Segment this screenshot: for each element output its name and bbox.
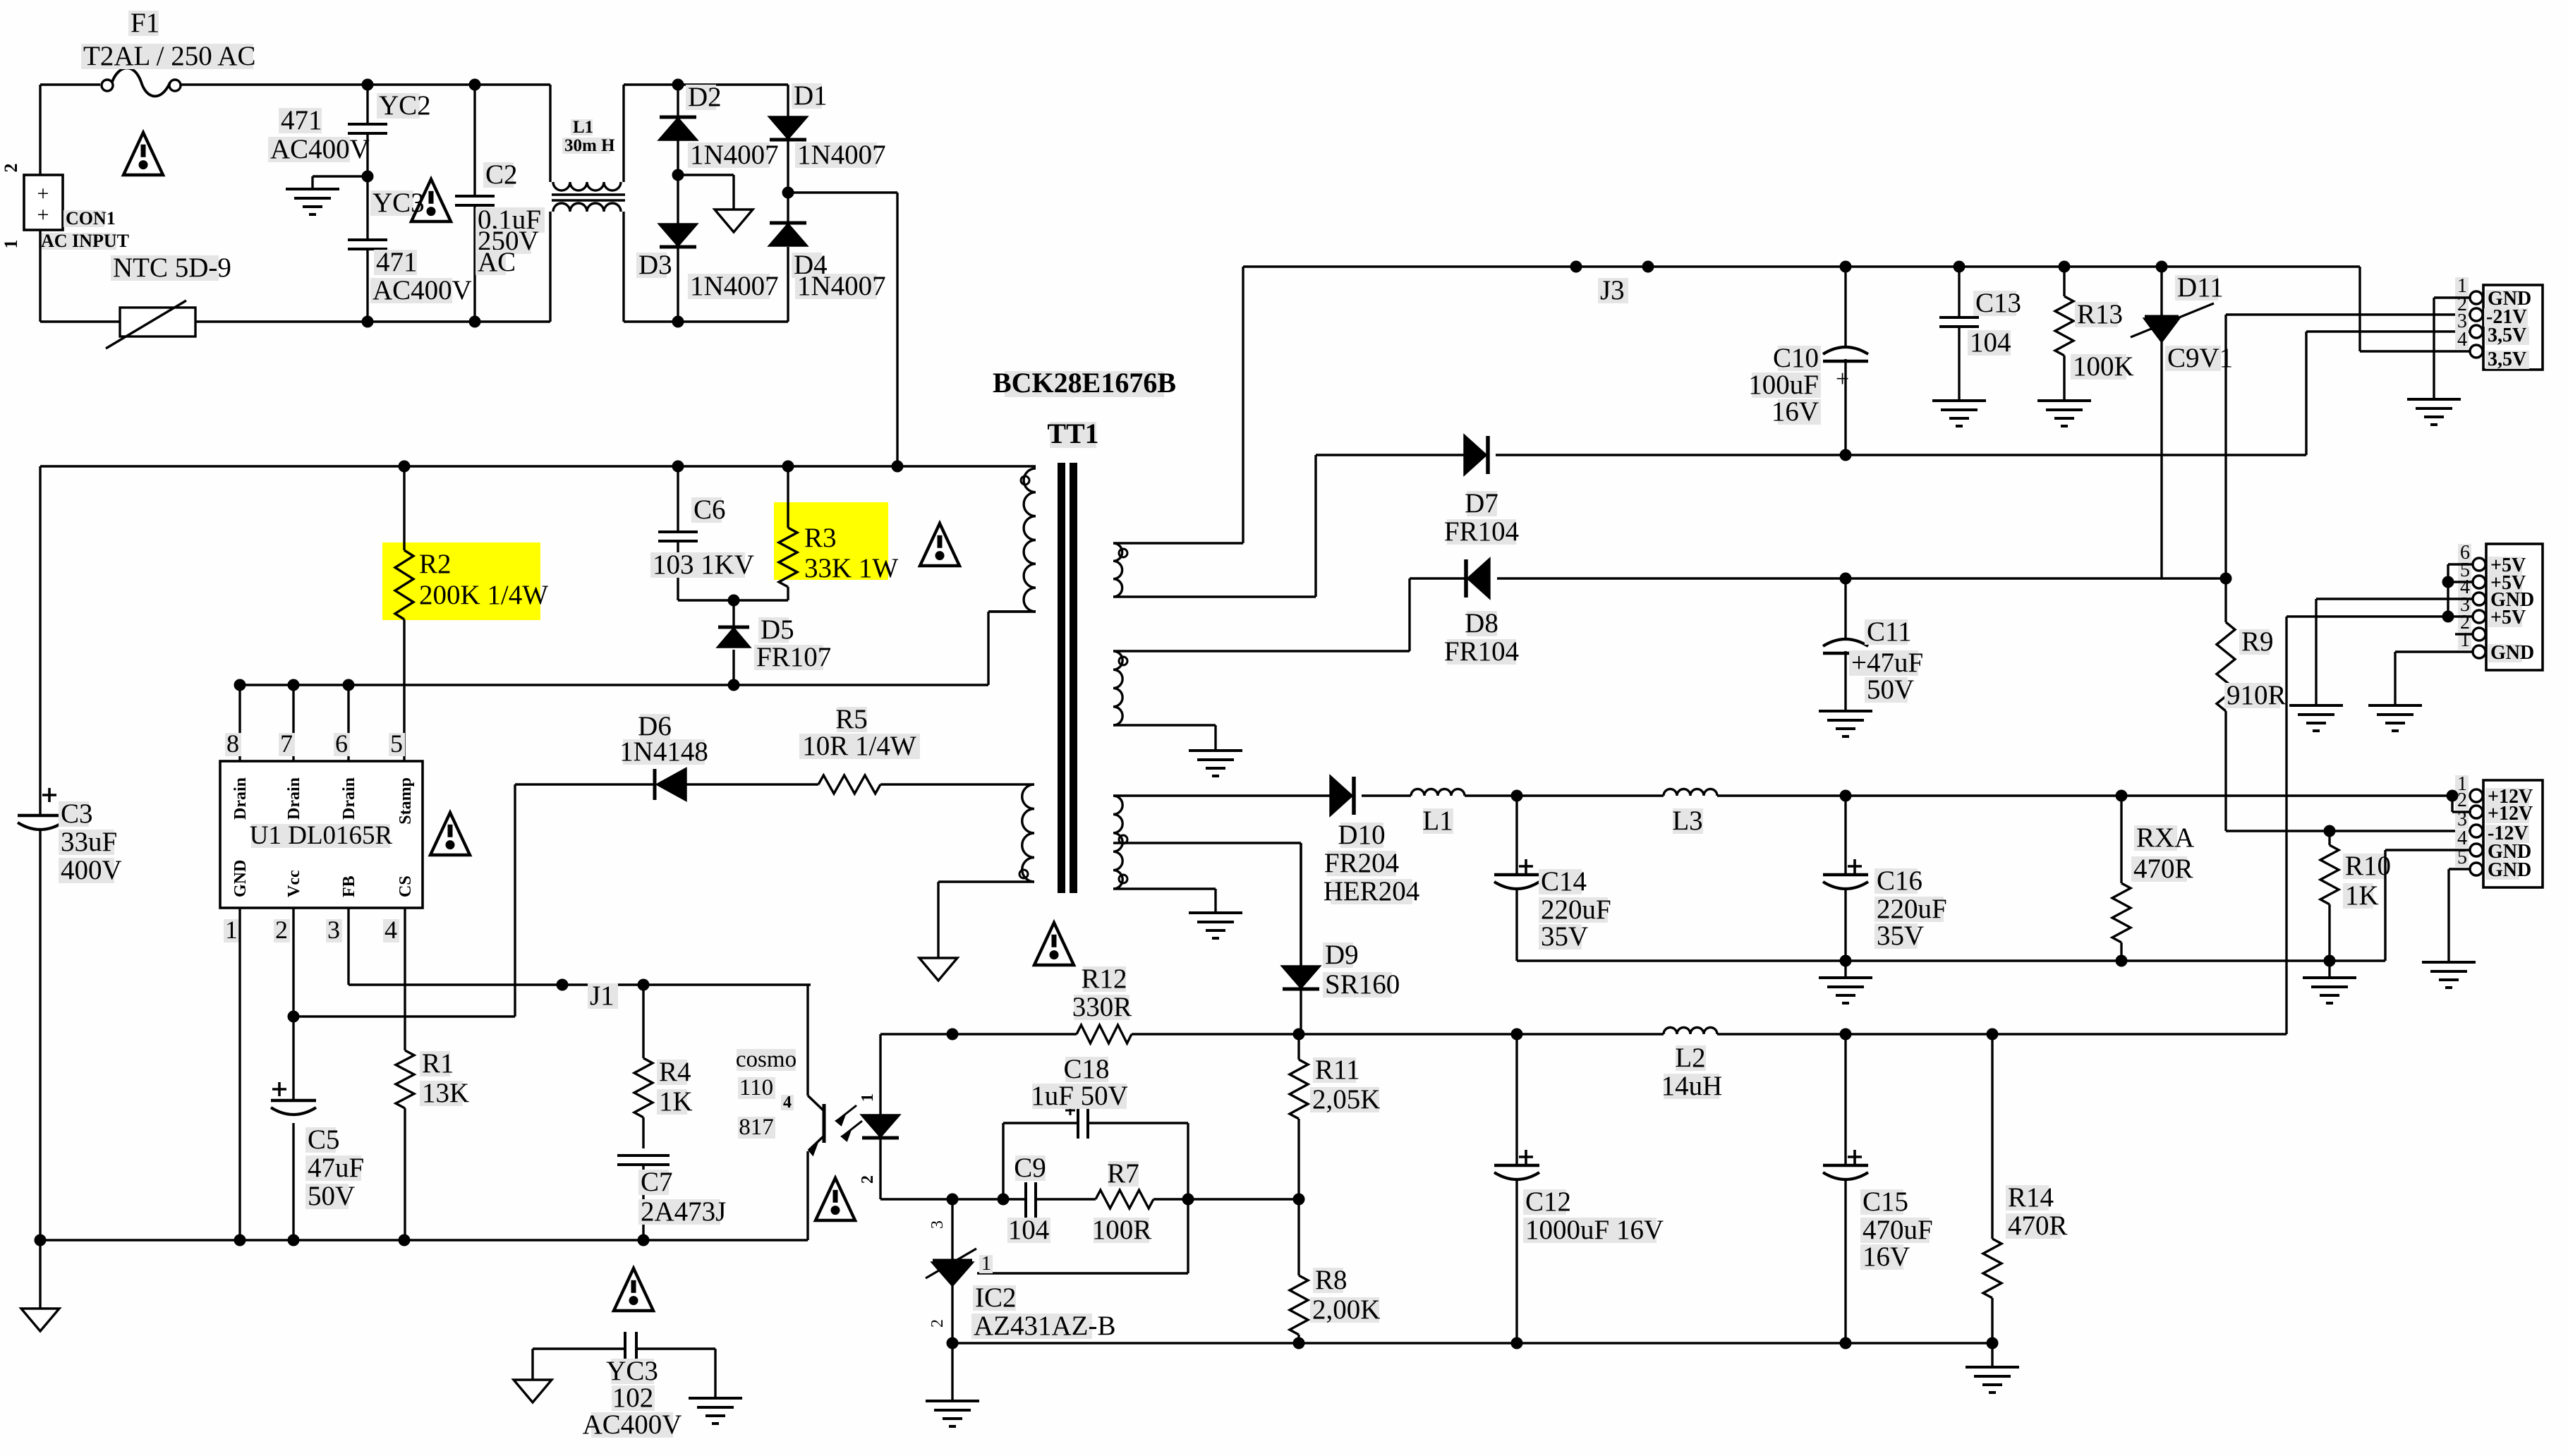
wire conn2 pin4 gnd	[2289, 599, 2473, 731]
optocoupler 817 led	[859, 1034, 899, 1199]
wire TL431 ref	[977, 1272, 1188, 1274]
wire bridge top	[624, 79, 788, 91]
wire conn2 ties	[2287, 564, 2473, 623]
svg-text:R1: R1	[422, 1048, 454, 1079]
inductor L3	[1664, 789, 2452, 837]
svg-text:Drain: Drain	[340, 777, 358, 820]
resistor R1	[396, 908, 469, 1246]
svg-text:T2AL / 250 AC: T2AL / 250 AC	[83, 41, 255, 71]
svg-text:FR104: FR104	[1444, 516, 1519, 547]
svg-text:470R: 470R	[2008, 1211, 2068, 1241]
svg-text:471: 471	[281, 105, 322, 135]
resistor R13	[2037, 261, 2134, 427]
svg-text:C14: C14	[1541, 866, 1587, 897]
wire conn2 pin2 stub	[2455, 633, 2473, 635]
svg-text:1N4007: 1N4007	[690, 140, 779, 170]
svg-text:103 1KV: 103 1KV	[653, 550, 754, 580]
resistor R4	[634, 985, 693, 1148]
svg-text:IC2: IC2	[975, 1282, 1017, 1313]
warning triangle near R3	[920, 523, 959, 566]
fuse F1	[81, 8, 255, 96]
svg-text:330R: 330R	[1072, 992, 1132, 1022]
capacitor C6	[650, 461, 754, 601]
svg-text:GND: GND	[2488, 859, 2531, 881]
capacitor C16	[1819, 790, 1947, 1004]
diode D4	[770, 193, 886, 322]
inductor L2	[1661, 1028, 1723, 1102]
svg-text:2,05K: 2,05K	[1312, 1084, 1380, 1115]
svg-text:BCK28E1676B: BCK28E1676B	[993, 367, 1176, 399]
svg-text:3: 3	[928, 1220, 947, 1229]
svg-text:220uF: 220uF	[1877, 894, 1947, 924]
svg-text:D2: D2	[688, 82, 722, 112]
capacitor C11	[1819, 573, 1923, 737]
svg-text:C9: C9	[1014, 1153, 1046, 1183]
transformer secondary 1	[1113, 267, 1316, 597]
connector output 2	[2458, 542, 2543, 670]
wire J1 line	[349, 908, 811, 1011]
svg-text:U1 DL0165R: U1 DL0165R	[250, 821, 393, 850]
svg-text:4: 4	[384, 916, 397, 944]
svg-text:200K 1/4W: 200K 1/4W	[419, 580, 548, 610]
svg-text:AZ431AZ-B: AZ431AZ-B	[974, 1311, 1115, 1341]
svg-text:D10: D10	[1338, 820, 1385, 850]
resistor R3	[774, 461, 898, 601]
wire HV rail	[40, 461, 1036, 473]
svg-text:5: 5	[390, 729, 403, 758]
svg-text:910R: 910R	[2227, 680, 2287, 710]
diode D8	[1410, 559, 2226, 667]
transformer primary winding	[988, 468, 1036, 612]
svg-text:3: 3	[327, 916, 340, 944]
svg-text:R3: R3	[804, 523, 837, 553]
diode D6	[515, 711, 818, 800]
svg-text:R4: R4	[659, 1057, 691, 1087]
svg-text:400V: 400V	[61, 855, 122, 885]
svg-text:C15: C15	[1863, 1187, 1908, 1217]
resistor R14	[1966, 1034, 2068, 1393]
connector output 1	[2455, 275, 2543, 370]
svg-text:1000uF 16V: 1000uF 16V	[1525, 1215, 1664, 1245]
svg-text:C5: C5	[308, 1124, 340, 1155]
ground YC3 left arrow	[514, 1349, 552, 1402]
svg-text:R9: R9	[2241, 626, 2274, 657]
thermistor NTC	[106, 253, 231, 348]
transformer secondary 2	[1113, 578, 1410, 749]
svg-text:D11: D11	[2177, 272, 2224, 303]
svg-text:1K: 1K	[659, 1086, 693, 1117]
resistor R7	[1092, 1158, 1153, 1245]
capacitor C13	[1932, 261, 2021, 427]
svg-text:HER204: HER204	[1324, 876, 1420, 906]
svg-text:8: 8	[226, 729, 239, 758]
wire conn2 pin1 gnd	[2368, 652, 2473, 731]
ground secondary 2	[1189, 751, 1242, 776]
diode D2	[660, 82, 779, 175]
svg-text:100K: 100K	[2073, 351, 2134, 382]
resistor R10	[2303, 825, 2391, 1004]
svg-text:L1: L1	[573, 118, 593, 137]
capacitor C14	[1494, 790, 1611, 961]
svg-text:R2: R2	[419, 549, 452, 579]
svg-text:TT1: TT1	[1047, 418, 1098, 449]
svg-text:D5: D5	[761, 614, 794, 645]
wire 5V rail	[880, 1029, 2287, 1041]
svg-text:1: 1	[2460, 629, 2470, 651]
wire pin2 Vcc	[288, 908, 300, 1246]
svg-text:J1: J1	[590, 981, 614, 1011]
resistor R2	[382, 461, 548, 762]
resistor R11	[1290, 1034, 1380, 1199]
wire -21V to pin2	[2226, 313, 2472, 315]
diode D7	[1316, 332, 2472, 547]
warning triangle near transformer	[1034, 923, 1074, 965]
capacitor YC3 input	[348, 171, 472, 328]
svg-text:SR160: SR160	[1325, 969, 1400, 1000]
transformer TT1 label	[993, 367, 1176, 449]
resistor R8	[1290, 1194, 1380, 1349]
svg-text:L2: L2	[1675, 1043, 1705, 1073]
svg-text:FR104: FR104	[1444, 636, 1519, 667]
svg-text:GND: GND	[2490, 642, 2534, 664]
svg-text:J3: J3	[1600, 275, 1625, 305]
svg-text:Vcc: Vcc	[285, 870, 303, 897]
wire C6 R3 join	[678, 595, 788, 607]
svg-text:YC3: YC3	[606, 1356, 658, 1386]
svg-text:4: 4	[783, 1093, 792, 1112]
svg-text:+: +	[1836, 366, 1849, 392]
svg-text:33K 1W: 33K 1W	[804, 553, 898, 583]
svg-text:50V: 50V	[1867, 674, 1914, 705]
svg-text:+5V: +5V	[2490, 607, 2526, 629]
svg-text:R7: R7	[1107, 1158, 1139, 1189]
svg-text:13K: 13K	[422, 1078, 469, 1108]
wire AC line top rail	[40, 83, 550, 85]
wire drain bus	[239, 612, 1036, 685]
svg-text:7: 7	[280, 729, 293, 758]
wire conn3 pins12	[2447, 790, 2471, 813]
svg-text:2: 2	[859, 1175, 877, 1184]
svg-text:35V: 35V	[1877, 921, 1924, 951]
wire output gnd bottom rail	[952, 1342, 1992, 1344]
wire conn3 pin4 gnd	[2330, 850, 2470, 961]
svg-text:+47uF: +47uF	[1851, 648, 1923, 678]
capacitor C18	[1003, 1054, 1188, 1273]
svg-text:2: 2	[1, 164, 21, 173]
wire secondary gnd rail	[1517, 959, 2330, 961]
svg-text:2: 2	[928, 1319, 947, 1328]
svg-text:C7: C7	[641, 1167, 673, 1197]
zener diode D11	[2131, 261, 2233, 579]
svg-text:1: 1	[859, 1093, 877, 1102]
wire primary gnd bottom rail	[40, 1239, 808, 1241]
node bridge minus	[672, 169, 753, 233]
capacitor C3	[18, 466, 122, 1240]
svg-text:Drain: Drain	[285, 777, 303, 820]
resistor R9	[2217, 315, 2287, 831]
wire bridge plus out	[782, 187, 898, 467]
svg-text:50V: 50V	[308, 1181, 355, 1211]
svg-text:16V: 16V	[1863, 1242, 1910, 1272]
ground secondary 3	[1189, 913, 1242, 938]
svg-text:2A473J: 2A473J	[641, 1196, 726, 1227]
svg-text:C9V1: C9V1	[2167, 343, 2233, 373]
svg-text:R5: R5	[835, 704, 868, 734]
svg-text:FR204: FR204	[1324, 848, 1399, 878]
svg-text:C2: C2	[485, 159, 518, 190]
warning triangle near fuse	[123, 133, 163, 175]
svg-text:3,5V: 3,5V	[2488, 324, 2526, 346]
svg-text:33uF: 33uF	[61, 827, 117, 857]
wire conn3 pin5 gnd	[2422, 869, 2476, 988]
svg-text:D7: D7	[1465, 488, 1498, 518]
svg-text:CON1: CON1	[66, 208, 116, 229]
diode D5	[718, 600, 831, 691]
resistor R12	[1072, 964, 1132, 1043]
resistor RXA	[2112, 790, 2194, 967]
svg-text:R10: R10	[2345, 851, 2391, 881]
diode D10	[1324, 777, 1420, 906]
capacitor C2	[455, 79, 545, 328]
connector CON1	[1, 164, 129, 252]
wire feedback node	[880, 1194, 1299, 1206]
svg-text:NTC 5D-9: NTC 5D-9	[113, 253, 231, 283]
ground YC3 right	[689, 1349, 742, 1424]
warning triangle below opto	[816, 1178, 855, 1220]
svg-text:D9: D9	[1325, 940, 1359, 970]
svg-text:47uF: 47uF	[308, 1153, 364, 1183]
svg-text:1N4007: 1N4007	[797, 140, 886, 170]
wire 5V riser	[2285, 617, 2287, 1034]
svg-text:C12: C12	[1525, 1187, 1571, 1217]
svg-text:C10: C10	[1773, 343, 1819, 373]
svg-text:CS: CS	[396, 875, 415, 897]
svg-text:10R 1/4W: 10R 1/4W	[802, 731, 916, 761]
svg-text:cosmo: cosmo	[736, 1047, 797, 1072]
capacitor C5	[271, 1082, 364, 1211]
svg-text:100R: 100R	[1092, 1215, 1152, 1245]
svg-text:D8: D8	[1465, 608, 1498, 638]
svg-text:3,5V: 3,5V	[2488, 348, 2526, 370]
svg-text:R14: R14	[2008, 1182, 2054, 1213]
svg-text:470uF: 470uF	[1863, 1215, 1933, 1245]
wire J3 rail	[1243, 261, 2472, 352]
capacitor C9	[1007, 1153, 1050, 1245]
inductor L1 output	[1411, 789, 1664, 837]
svg-text:YC2: YC2	[379, 90, 431, 121]
svg-text:C18: C18	[1063, 1054, 1109, 1084]
svg-text:30m H: 30m H	[564, 136, 615, 155]
svg-text:R12: R12	[1081, 964, 1127, 994]
svg-text:104: 104	[1008, 1215, 1050, 1245]
svg-text:RXA: RXA	[2136, 823, 2194, 853]
svg-text:+: +	[37, 203, 49, 226]
capacitor C7	[617, 1155, 726, 1246]
connector output 3	[2455, 773, 2543, 887]
svg-text:102: 102	[612, 1383, 654, 1413]
svg-text:471: 471	[376, 247, 418, 277]
svg-text:1N4007: 1N4007	[797, 271, 886, 301]
diode D9	[1283, 843, 1400, 1034]
wire CON1 to rails	[39, 85, 41, 322]
svg-text:AC400V: AC400V	[583, 1409, 682, 1440]
svg-text:817: 817	[739, 1115, 774, 1140]
ground aux winding	[919, 958, 957, 981]
capacitor YC3 bottom	[533, 1332, 715, 1440]
svg-text:1: 1	[981, 1253, 991, 1275]
wire conn1 pin1 gnd	[2407, 298, 2470, 425]
svg-text:D3: D3	[638, 250, 672, 280]
svg-text:C16: C16	[1877, 866, 1922, 896]
wire -12V line	[2226, 830, 2472, 832]
diode D3	[636, 175, 779, 322]
svg-text:C3: C3	[61, 799, 93, 829]
capacitor C15	[1823, 1034, 1933, 1349]
svg-text:FB: FB	[340, 875, 358, 897]
choke L1 common-mode	[550, 85, 625, 322]
warning triangle YC3 bottom	[614, 1268, 653, 1311]
svg-text:C11: C11	[1867, 617, 1912, 647]
svg-text:1: 1	[1, 240, 21, 249]
ground C3 arrow	[21, 1234, 59, 1332]
svg-text:6: 6	[335, 729, 348, 758]
svg-text:1K: 1K	[2345, 880, 2379, 911]
transformer core	[1058, 463, 1077, 893]
capacitor C10	[1748, 261, 1868, 461]
capacitor YC2	[268, 79, 431, 177]
capacitor C12	[1494, 1034, 1664, 1349]
svg-text:+12V: +12V	[2488, 803, 2533, 825]
wire Vcc feed	[293, 784, 515, 1017]
svg-text:R8: R8	[1315, 1265, 1347, 1295]
svg-text:FR107: FR107	[756, 642, 831, 672]
svg-text:110: 110	[739, 1075, 773, 1100]
IC U1 DL0165R	[220, 679, 423, 945]
resistor R5	[799, 704, 1034, 794]
svg-text:AC400V: AC400V	[373, 275, 472, 305]
IC2 TL431	[926, 1199, 1115, 1349]
svg-text:D1: D1	[794, 80, 828, 111]
ground IC2	[926, 1343, 979, 1426]
svg-text:AC400V: AC400V	[270, 134, 370, 164]
svg-text:Drain: Drain	[231, 777, 250, 820]
svg-text:F1: F1	[131, 8, 159, 38]
svg-text:470R: 470R	[2133, 854, 2193, 884]
svg-text:L3: L3	[1672, 806, 1702, 836]
svg-text:1uF 50V: 1uF 50V	[1031, 1081, 1128, 1111]
svg-text:2: 2	[275, 916, 288, 944]
svg-text:16V: 16V	[1771, 396, 1819, 427]
svg-text:4: 4	[2457, 329, 2467, 351]
svg-text:104: 104	[1970, 327, 2011, 358]
ground YC midpoint	[286, 176, 368, 214]
wire pin1 GND	[234, 908, 246, 1246]
svg-text:L1: L1	[1422, 806, 1453, 836]
warning triangle near YC3	[411, 179, 451, 222]
svg-text:R13: R13	[2077, 299, 2123, 329]
svg-text:C13: C13	[1975, 288, 2021, 318]
svg-text:1N4148: 1N4148	[619, 736, 708, 767]
svg-text:35V: 35V	[1541, 921, 1588, 952]
svg-text:1N4007: 1N4007	[690, 271, 779, 301]
transformer aux winding	[938, 784, 1034, 958]
transformer secondary 3	[1113, 796, 1331, 966]
svg-text:AC: AC	[478, 247, 516, 277]
svg-text:GND: GND	[231, 860, 250, 897]
svg-text:+: +	[37, 182, 49, 205]
warning triangle near U1	[430, 813, 470, 855]
wire bridge bottom	[624, 316, 788, 328]
svg-text:1: 1	[225, 916, 238, 944]
wire AC bottom rail	[40, 320, 550, 322]
svg-text:R11: R11	[1315, 1055, 1360, 1085]
svg-text:100uF: 100uF	[1748, 370, 1819, 400]
svg-text:14uH: 14uH	[1661, 1071, 1723, 1101]
svg-text:220uF: 220uF	[1541, 894, 1611, 925]
svg-text:AC INPUT: AC INPUT	[41, 231, 129, 251]
svg-text:Stamp: Stamp	[396, 777, 415, 825]
svg-text:2,00K: 2,00K	[1312, 1294, 1380, 1325]
diode D1	[770, 80, 886, 193]
svg-text:C6: C6	[694, 495, 726, 525]
optocoupler 817 transistor	[736, 985, 862, 1240]
